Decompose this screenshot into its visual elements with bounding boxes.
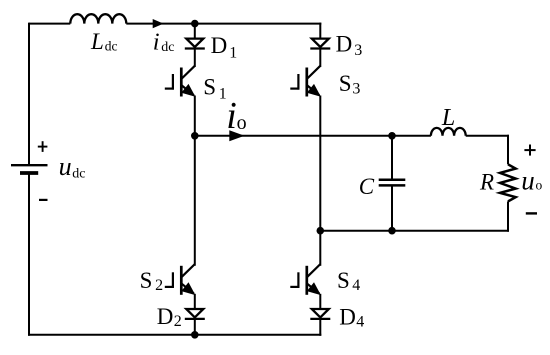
wire D4 to bottom rail corner — [319, 319, 321, 336]
wire bottom rail — [28, 334, 321, 336]
svg-text:D: D — [157, 304, 174, 329]
label minus battery — [39, 199, 48, 201]
svg-text:o: o — [536, 178, 543, 193]
wire left rail lower — [28, 173, 30, 336]
wire C node to L coil — [392, 135, 431, 137]
wire R top lead — [507, 135, 509, 165]
wire D1 to S1 — [194, 48, 196, 67]
resistor R zigzag — [500, 164, 516, 201]
svg-text:2: 2 — [155, 277, 163, 294]
wire D3 to S3 — [319, 48, 321, 67]
svg-text:D: D — [336, 32, 353, 57]
arrow idc — [153, 19, 164, 28]
svg-text:S: S — [140, 268, 153, 293]
wire R bottom lead — [507, 201, 509, 231]
wire S2 to D2 — [194, 294, 196, 310]
svg-text:dc: dc — [105, 38, 118, 53]
svg-text:u: u — [59, 152, 72, 181]
wire C top lead — [391, 136, 393, 180]
node C bottom junction dot — [388, 227, 396, 235]
diode D3 — [312, 39, 329, 47]
transistor S2 — [180, 266, 183, 295]
wire top rail to right leg — [126, 23, 321, 25]
svg-text:D: D — [339, 304, 356, 329]
diode D2 — [186, 309, 203, 317]
svg-text:4: 4 — [352, 277, 360, 294]
svg-text:S: S — [203, 75, 216, 100]
capacitor C — [379, 178, 406, 181]
wire S1 to node A — [194, 96, 196, 136]
label + load — [524, 149, 535, 151]
label minus load — [526, 212, 537, 214]
battery udc bottom plate — [20, 171, 38, 175]
wire S4 to D4 — [319, 294, 321, 310]
wire S3 down across io wire to node B — [319, 96, 321, 231]
svg-text:L: L — [90, 29, 104, 54]
inductor L — [431, 128, 466, 136]
node C top junction dot — [388, 132, 396, 140]
battery udc top plate — [11, 164, 48, 166]
wire left leg: top node to D1 — [194, 24, 196, 40]
svg-text:L: L — [441, 105, 455, 131]
node B output- junction dot — [317, 227, 325, 235]
svg-text:C: C — [359, 174, 375, 199]
svg-text:1: 1 — [229, 44, 237, 61]
wire right leg: top corner to D3 — [319, 23, 321, 40]
svg-text:dc: dc — [72, 166, 85, 181]
diode D4 — [312, 309, 329, 317]
transistor S1 — [180, 68, 183, 97]
arrow io — [229, 130, 244, 141]
node A output+ junction dot — [191, 132, 199, 140]
wire node B down to S4 — [319, 231, 321, 266]
diode D1 — [186, 39, 203, 47]
inductor Ldc — [70, 14, 126, 23]
svg-text:3: 3 — [354, 42, 362, 59]
svg-text:D: D — [211, 33, 228, 58]
wire top-left rail — [29, 23, 70, 25]
wire bottom output: node B to R corner — [320, 230, 509, 232]
svg-text:o: o — [237, 112, 247, 134]
transistor S4 — [305, 266, 308, 295]
svg-text:S: S — [337, 268, 350, 293]
svg-text:2: 2 — [174, 313, 182, 330]
wire left rail upper — [28, 23, 30, 166]
node bottom-left leg junction dot — [191, 331, 199, 339]
node top-left leg junction dot — [191, 20, 199, 28]
svg-text:R: R — [479, 169, 494, 194]
svg-text:i: i — [226, 95, 237, 137]
wire node A down to S2 — [194, 136, 196, 266]
wire io: node A to C node — [195, 135, 392, 137]
svg-text:dc: dc — [161, 40, 174, 55]
wire D2 to bottom node — [194, 319, 196, 335]
label + battery — [38, 146, 48, 148]
wire L to right corner — [466, 135, 509, 137]
transistor S3 — [305, 68, 308, 97]
svg-text:4: 4 — [356, 314, 364, 331]
wire C bottom lead — [391, 185, 393, 230]
svg-text:u: u — [521, 166, 535, 196]
svg-text:S: S — [339, 71, 352, 96]
svg-text:i: i — [153, 29, 160, 56]
svg-text:3: 3 — [352, 81, 360, 98]
